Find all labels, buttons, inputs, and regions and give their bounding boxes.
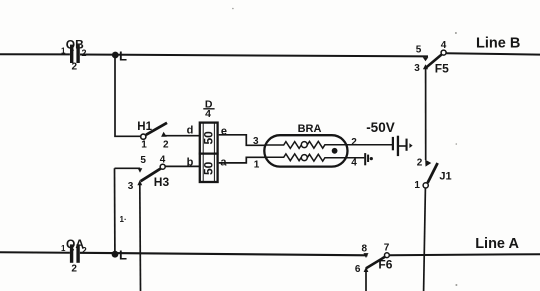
svg-text:7: 7: [384, 242, 390, 253]
svg-text:50: 50: [201, 131, 215, 145]
svg-text:2: 2: [72, 61, 78, 72]
svg-text:1: 1: [141, 139, 147, 150]
svg-text:1: 1: [414, 180, 420, 191]
svg-text:1: 1: [61, 244, 66, 253]
svg-text:2: 2: [71, 263, 77, 274]
svg-text:Line A: Line A: [475, 236, 519, 252]
svg-text:J1: J1: [439, 170, 451, 182]
svg-text:5: 5: [416, 44, 422, 55]
svg-text:1: 1: [254, 159, 260, 170]
svg-text:Line B: Line B: [476, 35, 520, 51]
svg-text:3: 3: [128, 181, 134, 192]
svg-text:e: e: [221, 126, 227, 138]
svg-text:50: 50: [201, 161, 215, 175]
svg-text:d: d: [187, 125, 194, 137]
svg-text:8: 8: [362, 243, 368, 254]
svg-text:3: 3: [253, 136, 259, 147]
svg-text:4: 4: [441, 40, 447, 51]
svg-text:1·: 1·: [120, 215, 127, 224]
svg-text:1: 1: [61, 47, 66, 56]
svg-text:H3: H3: [154, 175, 170, 189]
svg-text:L: L: [119, 48, 127, 63]
svg-text:F5: F5: [435, 61, 449, 75]
svg-text:L: L: [119, 248, 127, 263]
svg-text:4: 4: [205, 108, 211, 120]
svg-text:2: 2: [351, 137, 357, 148]
svg-text:3: 3: [414, 63, 420, 74]
svg-text:6: 6: [355, 264, 361, 275]
svg-text:2: 2: [417, 157, 423, 168]
svg-text:4: 4: [351, 157, 357, 168]
svg-text:b: b: [187, 157, 194, 169]
svg-text:-50V: -50V: [366, 120, 395, 135]
svg-text:5: 5: [140, 155, 146, 166]
svg-text:a: a: [220, 157, 227, 169]
svg-text:2: 2: [163, 139, 169, 150]
svg-text:4: 4: [160, 155, 166, 166]
svg-text:2: 2: [82, 246, 87, 256]
svg-text:2: 2: [82, 48, 87, 58]
svg-text:F6: F6: [378, 257, 392, 271]
svg-text:BRA: BRA: [298, 123, 322, 135]
svg-text:H1: H1: [137, 121, 152, 133]
